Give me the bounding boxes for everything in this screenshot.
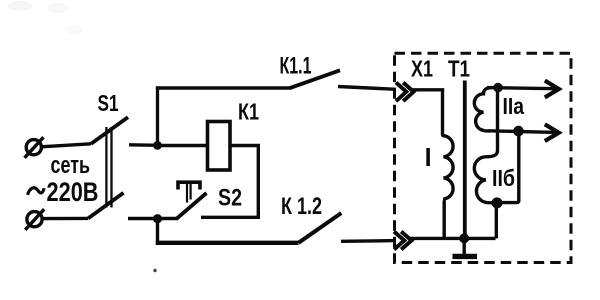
node: junction dot core/bottom-rail: [459, 233, 469, 243]
wire X1 top into transformer primary: [412, 88, 445, 91]
wire S1 pole2 fixed contact through node B to S2 pivot: [128, 217, 177, 220]
wire node A to relay coil: [158, 144, 209, 147]
svg-text:К1: К1: [238, 99, 259, 125]
connector X1 top chevron: [396, 83, 414, 102]
svg-text:К1.1: К1.1: [280, 52, 312, 79]
svg-text:IIб: IIб: [492, 165, 515, 191]
relay coil K1: [208, 122, 231, 171]
terminal pin XP2 (bottom mains pin): [25, 209, 44, 230]
output line IIa/IIб tap (middle arrow): [489, 124, 559, 141]
transformer secondary winding IIa: [474, 88, 492, 131]
wire X1 bottom to transformer area bottom rail: [410, 237, 496, 240]
dashed enclosure box: [395, 53, 572, 262]
wire S1 pole1 fixed contact to node A: [129, 143, 159, 147]
node: junction dot on top output: [493, 83, 503, 93]
wire node A up to top rail: [156, 86, 159, 145]
S1 mechanical linkage (double line): [106, 127, 111, 208]
svg-text:220В: 220В: [47, 177, 99, 207]
transformer primary winding I: [443, 90, 454, 239]
push button S2 arm: [176, 193, 207, 219]
wire middle tap down to IIб bottom: [498, 131, 519, 203]
svg-text:Т1: Т1: [448, 56, 470, 82]
wire XP2 to S1 pole 2: [42, 217, 88, 221]
svg-text:К 1.2: К 1.2: [281, 193, 322, 220]
output line IIa (top arrow): [487, 81, 559, 98]
contact K1.2 arm: [299, 213, 342, 243]
bottom rail wire to K1.2: [156, 241, 299, 245]
S2 actuator stem (double line): [187, 184, 191, 203]
wire K1.2 fixed contact to connector X1 bottom: [341, 239, 395, 243]
node B junction dot: [153, 214, 162, 223]
terminal pin XP1 (top mains pin): [25, 137, 44, 158]
node: junction dot on middle output: [513, 126, 524, 137]
svg-text:Х1: Х1: [411, 56, 433, 82]
contact K1.1 arm: [290, 70, 341, 88]
wire node B down to bottom rail: [156, 219, 159, 245]
node A junction dot: [153, 141, 162, 150]
svg-text:S2: S2: [218, 185, 242, 212]
transformer T1 core: [463, 81, 467, 239]
node: junction dot at IIб bottom: [492, 197, 503, 208]
wire XP1 to S1 pole 1: [41, 144, 91, 147]
svg-text:S1: S1: [98, 90, 119, 116]
ground stem: [463, 238, 466, 254]
speck: [153, 269, 156, 272]
ground symbol: [453, 254, 478, 259]
scan smudges top-left: [8, 1, 32, 11]
wire K1.1 fixed contact to connector X1 top: [338, 87, 396, 90]
svg-text:сеть: сеть: [51, 152, 91, 179]
label ~: [28, 188, 45, 195]
top rail wire to K1.1: [156, 86, 290, 90]
transformer secondary winding IIб: [474, 88, 497, 203]
svg-text:IIа: IIа: [503, 93, 525, 119]
label I: [426, 148, 430, 166]
wire relay K1 right lead down to S2 fixed contact: [201, 146, 258, 218]
switch S1 pole 2 arm: [88, 193, 124, 219]
S2 actuator cap: [178, 182, 200, 189]
switch S1 pole 1 arm: [91, 117, 128, 144]
connector X1 bottom chevron: [394, 232, 412, 250]
wire IIб bottom down to bottom rail: [495, 203, 498, 239]
